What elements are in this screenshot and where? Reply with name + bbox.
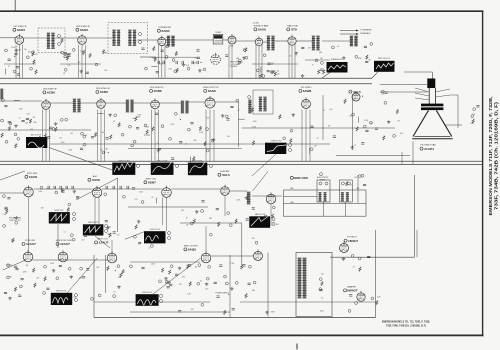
ground r2b6	[54, 122, 58, 125]
wire leader W13	[252, 154, 276, 176]
wire diag afc leader	[253, 171, 268, 191]
resistor R r1c3	[175, 51, 177, 56]
wire row3 afc coil	[229, 190, 247, 192]
waveform photo W9	[144, 231, 166, 243]
capacitor C r4c2	[367, 256, 370, 257]
capacitor C pr4b6	[188, 265, 191, 266]
junction dot r2e13	[180, 119, 181, 120]
resistor R r3c3	[86, 226, 88, 231]
tube V19 12AU7	[58, 250, 68, 262]
stage label 6AU8	[25, 173, 38, 179]
stage label 6AG5	[13, 26, 27, 32]
capacitor C r1b7	[64, 52, 67, 53]
part-ref pr2a0	[1, 119, 4, 122]
resistor T1 damp	[61, 38, 63, 43]
part-ref r3h0	[272, 206, 275, 209]
coil vert yoke winding B	[323, 193, 326, 202]
wire row4 top seg	[130, 261, 200, 263]
part-ref r2c4	[83, 143, 86, 146]
part-ref r3i0	[361, 174, 364, 177]
capacitor C r2d2	[158, 148, 161, 149]
svg-text:680: 680	[236, 58, 239, 60]
svg-text:HOR 70 V P-P: HOR 70 V P-P	[150, 229, 160, 231]
svg-text:6SN7: 6SN7	[148, 181, 156, 185]
svg-text:47: 47	[8, 66, 10, 68]
junction dot r4b13	[228, 294, 229, 295]
ground r1b6	[79, 70, 83, 73]
tube V7 6CB6	[42, 99, 51, 110]
wire pin drop V9b	[154, 110, 156, 162]
resistor R r2i10	[383, 136, 385, 141]
svg-text:6AW8: 6AW8	[303, 89, 312, 93]
wire stub r2h12	[357, 117, 359, 123]
wire speaker lead 1	[340, 30, 356, 32]
svg-text:.047: .047	[105, 148, 108, 150]
wire pin drop V3a	[158, 45, 160, 79]
svg-text:.01: .01	[113, 292, 115, 294]
wire row2 T8-V8	[80, 102, 97, 104]
capacitor C r2i7	[385, 92, 388, 93]
wire row1 V3-tuner	[166, 39, 213, 41]
part-ref r3b9	[55, 191, 58, 194]
wire row3 link V13-V14	[34, 188, 92, 190]
part-ref W11r	[75, 294, 78, 297]
coil L afc	[247, 192, 251, 204]
wire pin drop V9c	[157, 110, 159, 162]
capacitor C r3b7	[76, 197, 79, 198]
wire diag left	[0, 171, 25, 180]
CRT neck right	[435, 88, 437, 104]
stage label HOR OSC	[290, 176, 309, 180]
capacitor C osc row 1	[163, 61, 164, 64]
capacitor C r2a2	[4, 105, 7, 106]
resistor R r1e3	[260, 74, 262, 79]
wire pin drop V9a	[151, 110, 153, 162]
wire pin drop V2c	[84, 45, 86, 79]
resistor R r1a10	[32, 52, 34, 57]
resistor R r3a10	[12, 238, 14, 243]
resistor R r4a3	[122, 269, 124, 274]
part-ref W13r	[289, 144, 292, 147]
part-ref r4c0	[358, 257, 361, 260]
wire vert x94	[93, 255, 95, 318]
svg-text:.01: .01	[148, 247, 150, 249]
tube V22 5U4	[254, 250, 263, 261]
coil hor yoke winding A	[341, 193, 344, 202]
wire vert x414	[414, 175, 416, 257]
wire pin drop V2a	[78, 45, 80, 79]
coil T9 sec	[130, 100, 134, 112]
coil T7 secondary	[354, 36, 358, 46]
ground r2i6	[387, 121, 391, 124]
part-ref w5 ref	[176, 165, 179, 168]
svg-text:680: 680	[276, 224, 279, 226]
ground pr4d5	[69, 275, 73, 278]
svg-text:.001: .001	[354, 177, 357, 179]
capacitor C sync row 3	[66, 186, 67, 189]
svg-text:VIDEO 20 V P-P: VIDEO 20 V P-P	[118, 160, 129, 162]
wire pin drop V8a	[97, 110, 99, 162]
capacitor C r1c2	[196, 50, 199, 51]
CRT faceplate outer	[412, 138, 452, 140]
wire stub r1b12	[63, 53, 69, 55]
ground r1e6	[294, 52, 298, 55]
part-ref r3b0	[68, 203, 71, 206]
part-ref r1c0	[203, 68, 206, 71]
part-ref r2g4	[310, 148, 313, 151]
part-ref w6 ref	[210, 165, 213, 168]
ground r4a6	[117, 286, 121, 289]
svg-text:.02: .02	[316, 137, 318, 139]
wire row1 tuner-V4	[223, 39, 228, 41]
svg-text:47: 47	[19, 118, 21, 120]
coil T1 secondary	[51, 33, 55, 49]
part-ref pr4c4	[197, 282, 200, 285]
capacitor C pr2c1	[136, 128, 139, 129]
svg-text:SYNC 15 V P-P: SYNC 15 V P-P	[157, 160, 168, 162]
coil hor yoke winding B	[346, 193, 349, 202]
part-ref r3h4	[264, 215, 267, 218]
wire row3 left stub	[0, 192, 24, 194]
svg-text:1.5M: 1.5M	[17, 50, 21, 52]
svg-text:1.5M: 1.5M	[2, 214, 6, 216]
capacitor C osc row 3	[182, 61, 183, 64]
wire row2 video line	[239, 143, 331, 145]
part-ref W7r	[73, 213, 76, 216]
svg-text:OSC ADJ: OSC ADJ	[230, 65, 237, 68]
tube V4 mixer	[228, 34, 236, 44]
wire pin drop V6b	[291, 45, 293, 79]
svg-text:.005: .005	[116, 235, 119, 237]
tube V9 6CB6	[151, 98, 160, 109]
part-ref pr4a12	[117, 265, 120, 268]
svg-text:4.5 MC: 4.5 MC	[253, 23, 260, 25]
resistor R r2a3	[8, 126, 10, 131]
svg-text:6AL5: 6AL5	[353, 90, 361, 94]
tube V12 6AL5	[352, 91, 360, 101]
svg-text:47: 47	[354, 145, 356, 147]
resistor R r2h3	[356, 127, 358, 132]
wire pin drop V7c	[48, 110, 50, 162]
capacitor C r4e7	[178, 311, 181, 312]
vert yoke box	[317, 180, 330, 202]
capacitor C pr1c1	[156, 72, 159, 73]
part-ref pr4c8	[235, 282, 238, 285]
part-ref r2d9	[131, 144, 134, 147]
capacitor C pr4c1	[169, 284, 172, 285]
tube V10 video out	[205, 96, 215, 108]
svg-text:6AG5: 6AG5	[80, 28, 88, 32]
part-ref r3g0	[227, 212, 230, 215]
capacitor C sync row 4	[72, 186, 73, 189]
part-ref r2i9	[393, 135, 396, 138]
ground r2f6	[221, 114, 225, 117]
junction dot r3e13	[149, 234, 150, 235]
waveform photo W2	[374, 61, 395, 72]
part-ref r2j4	[473, 108, 476, 111]
wire stub r4a12	[6, 264, 12, 266]
capacitor C r3e2	[138, 242, 141, 243]
svg-text:.001: .001	[321, 274, 324, 276]
wire row2 V9-T10	[159, 102, 181, 104]
stage label 6CB6	[150, 87, 165, 93]
svg-text:.047: .047	[34, 54, 37, 56]
CRT faceplate inner	[415, 135, 451, 137]
capacitor C pr4b9	[219, 265, 222, 266]
part-ref r1c18	[166, 45, 169, 48]
ground pr4a5	[52, 269, 56, 272]
part-ref pr4a4	[44, 265, 47, 268]
wire row1 comp row e	[305, 59, 330, 61]
capacitor C r4b21	[175, 274, 178, 275]
capacitor C r1a16	[8, 59, 11, 60]
stage label 6AV8	[88, 175, 100, 182]
svg-text:TERMINALS: TERMINALS	[360, 32, 371, 35]
part-ref r4a18	[113, 295, 116, 298]
resistor R r3a3	[6, 209, 8, 214]
svg-text:6W4GT: 6W4GT	[347, 289, 358, 293]
part-ref r3g4	[255, 241, 258, 244]
part-ref r2g0	[284, 143, 287, 146]
coil L input (cut at edge)	[0, 89, 3, 99]
svg-text:HOR 8 V P-P: HOR 8 V P-P	[55, 210, 64, 212]
ground r3e6	[137, 220, 141, 223]
tube V8 6CB6	[97, 98, 106, 109]
wire row1 T1-V2	[55, 37, 78, 39]
capacitor C pr4c9	[248, 283, 251, 284]
wire crt base feed	[404, 71, 432, 73]
wire row2 V7-T8	[50, 102, 73, 104]
wire vert x58	[57, 224, 59, 248]
svg-text:6AL5: 6AL5	[222, 173, 230, 177]
wire leader W1	[322, 73, 330, 79]
svg-text:.001: .001	[96, 267, 99, 269]
part-ref r2h0	[363, 125, 366, 128]
wire pin drop V6a	[288, 45, 290, 79]
svg-text:12AU7: 12AU7	[26, 242, 36, 246]
capacitor C r3f7	[216, 208, 219, 209]
resistor R r4a10	[120, 273, 122, 278]
coil T6 primary	[312, 36, 316, 50]
part-ref W12rb	[160, 300, 163, 303]
resistor R r2g10	[279, 115, 281, 120]
yoke loop outline	[283, 190, 366, 216]
svg-text:EMERSON MODELS 711, 713, 720D,: EMERSON MODELS 711, 713, 720D, F, 732B,	[382, 322, 430, 324]
coil T10 pri	[181, 101, 185, 113]
part-ref W10r	[272, 218, 275, 221]
part-ref r2j0	[471, 115, 474, 118]
coil T2 primary	[112, 30, 116, 46]
wire pin drop V17	[270, 204, 272, 226]
resistor R r3g3	[235, 219, 237, 224]
resistor R r3e10	[135, 225, 137, 230]
part-ref r2a9	[5, 140, 8, 143]
resistor R pr2d3	[204, 141, 206, 146]
wire stub r1a12	[5, 69, 7, 75]
tube V20 12AU7	[107, 251, 117, 263]
wire leader W9 diag	[125, 232, 144, 240]
part-ref W12r	[160, 295, 163, 298]
svg-text:.02: .02	[113, 121, 115, 123]
tube V11 6AW8	[302, 98, 311, 109]
capacitor C pr4a6	[59, 265, 62, 266]
svg-text:680: 680	[252, 290, 255, 292]
wire vert x375	[375, 230, 377, 318]
svg-text:.005: .005	[46, 189, 49, 191]
stage label 6SN7	[144, 178, 157, 184]
part-ref r1e9	[257, 69, 260, 72]
capacitor C r2a7	[22, 120, 25, 121]
tube V24 6W4	[357, 291, 365, 301]
wire horiz y257	[330, 256, 415, 258]
capacitor C r2e7	[190, 123, 193, 124]
part-ref pr4b7	[198, 264, 201, 267]
coil T5 primary	[267, 36, 271, 50]
part-ref pr2c4	[161, 125, 164, 128]
CRT socket fan	[415, 88, 450, 100]
capacitor C r1d7	[238, 62, 241, 63]
part-ref pr4c7	[226, 282, 229, 285]
wire pin drop V5c	[261, 45, 263, 79]
border top rule	[0, 10, 484, 12]
hor yoke box	[339, 180, 352, 202]
part-ref r3e0	[151, 245, 154, 248]
wire v21-v22 link	[211, 255, 253, 257]
tube V13 sync sep	[24, 185, 34, 197]
resistor R r1a3	[33, 60, 35, 65]
capacitor C pr4c6	[214, 282, 217, 283]
stage label 6AQ5	[184, 245, 199, 251]
capacitor C sync row2 1	[113, 186, 114, 189]
part-ref pr1c0	[145, 67, 148, 70]
wire agc line row2	[0, 129, 91, 131]
stage label 21AP4	[420, 145, 436, 151]
svg-text:VERT 25 V P-P: VERT 25 V P-P	[192, 160, 202, 162]
junction dot r1c13	[201, 62, 202, 63]
svg-text:.001: .001	[30, 129, 33, 131]
transformer T2 (dashed can)	[108, 23, 148, 54]
resistor R r1c17	[154, 57, 156, 62]
wire yoke mid 1	[283, 196, 317, 198]
resistor R pr4a3	[33, 268, 35, 273]
part-ref r3a0	[3, 195, 6, 198]
capacitor C r4d2	[349, 295, 352, 296]
capacitor C r3h2	[259, 218, 262, 219]
wire pin drop V3c	[164, 45, 166, 79]
svg-text:733F, 734B, 742B (Ch. 120169B,: 733F, 734B, 742B (Ch. 120169B, D, F)	[386, 324, 426, 327]
wire row1 link V1-T1	[24, 37, 47, 39]
tube V1 6AG5	[15, 34, 24, 45]
resistor R pr4a11	[107, 266, 109, 271]
svg-text:EMERSON MODELS 711F, 713F, 720: EMERSON MODELS 711F, 713F, 720D, F, 732B…	[488, 97, 493, 216]
wire vert x413 crt	[412, 142, 414, 165]
stage label 12AU7	[56, 240, 73, 246]
part-ref r3a4	[15, 221, 18, 224]
svg-text:1.5M: 1.5M	[199, 132, 203, 134]
svg-text:6AH6: 6AH6	[208, 89, 216, 93]
tube V15 vert osc	[162, 186, 172, 198]
part-ref T1 trimmer	[58, 35, 61, 38]
junction dot r1b13	[64, 73, 65, 74]
capacitor C r1e2	[267, 63, 270, 64]
capacitor C r1f7	[301, 47, 304, 48]
ground r2h6	[350, 146, 354, 149]
part-ref r3a9	[3, 225, 6, 228]
stage label 1B3GT	[344, 237, 358, 243]
svg-text:270: 270	[277, 74, 280, 76]
svg-text:.047: .047	[271, 63, 274, 65]
part-ref r4b9	[167, 281, 170, 284]
resistor R r3e3	[147, 234, 149, 239]
wire row2 T10-V10	[189, 101, 206, 103]
part-ref r1g0	[355, 55, 358, 58]
wire vert x458	[457, 95, 459, 128]
resistor R r2g3	[290, 139, 292, 144]
resistor R pr4d3	[44, 277, 46, 282]
stage label 6AW8	[299, 87, 312, 93]
part-ref hyoke r1	[341, 182, 344, 185]
coil T10 sec	[185, 101, 189, 113]
capacitor C osc row 0	[158, 61, 159, 64]
wire pin drop V4a	[228, 45, 230, 79]
capacitor C sync row2 3	[127, 186, 128, 189]
svg-text:6CB6: 6CB6	[154, 89, 162, 93]
part-ref r1e14	[271, 71, 274, 74]
capacitor C r3f2	[201, 201, 204, 202]
wire row2 V10-out	[215, 101, 239, 103]
svg-text:6AQ5: 6AQ5	[188, 248, 196, 252]
wire row3 V15-V16	[171, 188, 220, 190]
svg-text:.005: .005	[132, 118, 135, 120]
resistor R r4a24	[14, 287, 16, 292]
capacitor C r2c2	[106, 138, 109, 139]
part-ref r3d4	[123, 195, 126, 198]
wire pin drop V13	[28, 197, 30, 252]
wire row1 V6-T6	[296, 40, 312, 42]
part-ref r2b0	[65, 118, 68, 121]
resistor R r4d3	[376, 300, 378, 305]
part-ref r3g9	[229, 224, 232, 227]
registration tick top	[14, 0, 16, 10]
capacitor T2 c	[141, 48, 144, 49]
resistor R r1e10	[274, 72, 276, 77]
wire video to CRT	[242, 127, 395, 129]
resistor R r2c10	[95, 132, 97, 137]
wire stub r2a12	[14, 99, 20, 101]
svg-text:.01: .01	[337, 46, 339, 48]
wire pin drop V21 feed	[205, 226, 207, 253]
waveform photo W10	[249, 216, 270, 228]
CRT yoke coil lower	[421, 107, 443, 110]
resistor R pr4b11	[241, 265, 243, 270]
part-ref r3b4	[40, 186, 43, 189]
ground r1c6	[182, 63, 186, 66]
resistor R r1b3	[66, 56, 68, 61]
wire crt grid	[380, 84, 427, 86]
wire vert x417	[416, 230, 418, 257]
resistor R r2a17	[15, 144, 17, 149]
capacitor C r2i2	[375, 128, 378, 129]
coil T1 primary	[47, 33, 51, 49]
coil vert yoke winding A	[318, 193, 321, 202]
part-ref r2a0	[9, 122, 12, 125]
capacitor C sync row 2	[60, 186, 61, 189]
wire row1 V2-T2	[86, 37, 112, 39]
border bottom rule	[0, 334, 484, 336]
wire v11 col	[322, 95, 324, 140]
resistor R pr2c3	[152, 127, 154, 132]
wire row3 line223	[180, 222, 242, 224]
